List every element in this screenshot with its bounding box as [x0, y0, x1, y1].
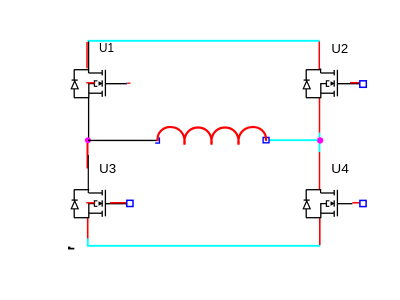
svg-text:U1: U1	[99, 40, 114, 55]
svg-text:U2: U2	[331, 41, 348, 56]
svg-text:U4: U4	[331, 161, 349, 176]
svg-text:U3: U3	[99, 161, 116, 176]
